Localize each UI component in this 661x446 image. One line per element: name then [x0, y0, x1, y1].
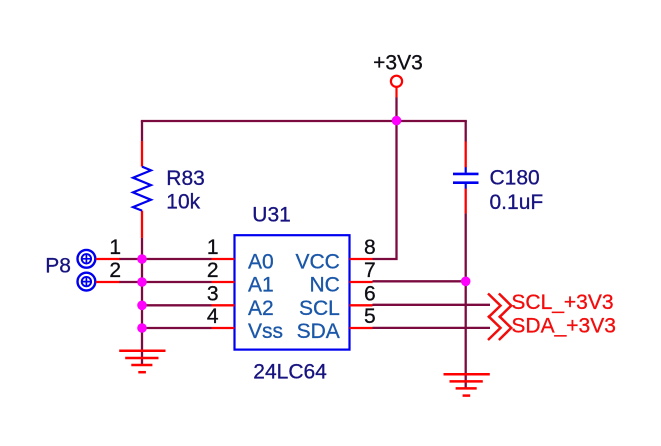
wire A2 to left bus: [142, 304, 212, 306]
svg-text:R83: R83: [166, 167, 205, 190]
P8 pin 2 stub: [96, 281, 120, 283]
junction dot left bus pin1: [137, 254, 147, 264]
svg-text:SDA: SDA: [297, 320, 340, 343]
capacitor C180: [453, 142, 479, 214]
svg-text:SCL: SCL: [299, 297, 340, 320]
svg-text:A1: A1: [248, 274, 274, 297]
svg-text:C180: C180: [490, 167, 540, 190]
svg-text:4: 4: [207, 305, 219, 328]
svg-text:1: 1: [207, 236, 219, 259]
wire P8-1 to A0: [119, 258, 212, 260]
wire SDA pin5 to off-page: [373, 327, 491, 329]
svg-text:A0: A0: [248, 250, 274, 273]
pin 6 SCL stub: [350, 304, 373, 306]
wire SCL pin6 to off-page: [373, 304, 491, 306]
pin 3 A2 stub: [212, 304, 235, 306]
wire VCC pin8 up to top bus: [373, 121, 397, 259]
off-page connector SDA chevron: [488, 316, 511, 340]
pin 8 VCC stub: [350, 258, 373, 260]
pin 1 A0 stub: [212, 258, 235, 260]
off-page connector SCL chevron: [488, 294, 511, 318]
op-amp U31 body: [235, 235, 350, 349]
pin 7 NC stub: [350, 281, 373, 283]
resistor R83 zigzag: [133, 167, 151, 211]
svg-text:0.1uF: 0.1uF: [490, 191, 544, 214]
junction dot left bus pin4: [137, 323, 147, 333]
svg-text:3: 3: [207, 282, 219, 305]
svg-text:2: 2: [207, 259, 219, 282]
wire resistor top branch: [141, 121, 143, 141]
svg-text:2: 2: [109, 259, 121, 282]
svg-text:P8: P8: [45, 255, 71, 278]
wire left vertical bus (resistor bottom to ground): [141, 238, 143, 365]
svg-text:7: 7: [364, 259, 376, 282]
junction dot NC cap branch: [461, 277, 471, 287]
pin 4 Vss stub: [212, 327, 235, 329]
wire top bus from resistor to capacitor branch: [142, 121, 466, 122]
svg-text:8: 8: [364, 236, 376, 259]
junction dot top bus: [392, 116, 402, 126]
resistor R1 leads: [141, 141, 143, 238]
P8 pin 1 stub: [96, 258, 120, 260]
junction dot left bus pin2: [137, 277, 147, 287]
power symbol +3V3: [391, 76, 402, 98]
connector P8 pin 2: [78, 273, 96, 291]
wire +3V3 to top bus: [395, 97, 397, 121]
wire capacitor bottom to ground: [465, 213, 467, 387]
svg-text:SDA_+3V3: SDA_+3V3: [511, 314, 616, 337]
svg-text:Vss: Vss: [248, 320, 283, 343]
pin 5 SDA stub: [350, 327, 373, 329]
wire capacitor top: [465, 121, 467, 142]
ground right: [444, 374, 490, 395]
wire P8-2 to A1: [119, 281, 212, 283]
pin 2 A1 stub: [212, 281, 235, 283]
svg-text:U31: U31: [252, 204, 291, 227]
svg-text:6: 6: [364, 282, 376, 305]
svg-text:24LC64: 24LC64: [253, 361, 327, 384]
junction dot left bus pin3: [137, 301, 147, 311]
wire Vss to left bus: [142, 327, 212, 329]
ground left: [119, 351, 165, 372]
wire NC pin7 to cap branch: [373, 280, 466, 282]
svg-text:5: 5: [364, 305, 376, 328]
svg-text:NC: NC: [309, 274, 339, 297]
svg-text:+3V3: +3V3: [373, 52, 423, 75]
svg-text:VCC: VCC: [295, 250, 339, 273]
svg-text:A2: A2: [248, 297, 274, 320]
svg-text:10k: 10k: [166, 191, 200, 214]
svg-text:SCL_+3V3: SCL_+3V3: [511, 291, 613, 314]
connector P8 pin 1: [78, 250, 96, 268]
svg-text:1: 1: [109, 236, 121, 259]
